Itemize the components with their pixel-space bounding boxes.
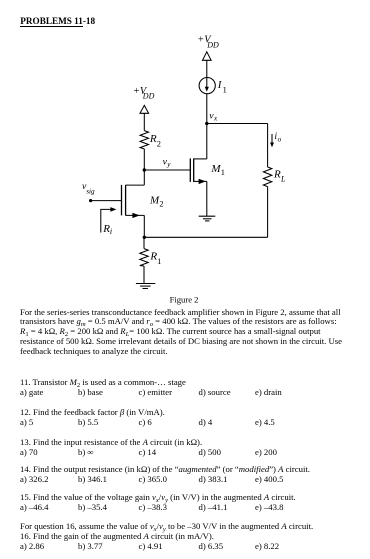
- svg-text:Figure 2: Figure 2: [170, 295, 199, 305]
- svg-text:DD: DD: [206, 40, 219, 49]
- svg-text:x: x: [213, 115, 218, 123]
- svg-text:2: 2: [159, 199, 163, 208]
- svg-text:i: i: [110, 227, 112, 236]
- svg-text:sig: sig: [86, 187, 95, 195]
- svg-text:M: M: [149, 195, 160, 207]
- svg-text:o: o: [278, 135, 282, 143]
- svg-text:R: R: [149, 133, 157, 145]
- svg-text:1: 1: [223, 86, 227, 95]
- svg-text:2: 2: [157, 139, 161, 148]
- svg-text:L: L: [280, 174, 286, 183]
- svg-text:R: R: [273, 168, 281, 180]
- svg-text:M: M: [210, 163, 221, 175]
- svg-text:y: y: [166, 161, 171, 169]
- svg-text:1: 1: [221, 168, 225, 177]
- svg-text:DD: DD: [142, 92, 155, 101]
- svg-text:1: 1: [157, 257, 161, 266]
